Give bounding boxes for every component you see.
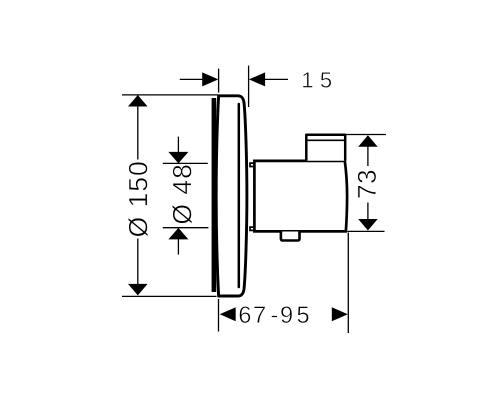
dim 73: top extension line	[346, 134, 386, 136]
dim 73: dimension line upper segment	[367, 136, 369, 166]
dim D48: top extension line	[163, 162, 208, 164]
body bottom edge extension	[253, 230, 347, 233]
plate front face line	[238, 104, 241, 287]
dim 15: label	[303, 72, 331, 87]
dim 15: left arrowhead	[202, 72, 218, 86]
cartridge stop cap on top	[306, 135, 345, 161]
dim D48: bottom extension line	[163, 227, 209, 229]
dim D150: dimension line lower segment	[137, 239, 139, 295]
dim 73: dimension line lower segment	[367, 203, 369, 230]
sleeve tab bottom	[250, 227, 254, 230]
dim 67-95: left arrowhead pointing left	[220, 307, 236, 321]
dim D48: label	[172, 165, 192, 223]
dim D48: bottom arrowhead pointing up	[168, 228, 188, 240]
dim 67-95: right extension line	[347, 233, 349, 334]
dim D150: bottom arrowhead	[128, 284, 148, 296]
dim D150: label	[128, 162, 148, 236]
cap inner line	[308, 139, 345, 141]
dim 15: right leader wire	[265, 78, 289, 80]
dim D150: bottom extension line	[122, 295, 217, 297]
dim 73: bottom extension line	[348, 230, 385, 232]
dim 73: label	[358, 171, 377, 198]
dim D150: dimension line upper segment	[137, 96, 139, 160]
dim 67-95: left extension line	[218, 299, 220, 332]
dim D150: top arrowhead	[128, 95, 148, 107]
dim D48: top arrowhead pointing down	[168, 152, 188, 164]
dim 73: top arrowhead pointing up	[358, 135, 378, 147]
check-valve tab below body	[281, 232, 300, 241]
valve body outline	[254, 161, 347, 231]
dim D48: top tail wire	[177, 137, 179, 153]
dim 15: left leader wire	[180, 78, 203, 80]
sleeve tab top	[250, 163, 254, 166]
dim 67-95: label	[240, 306, 309, 323]
dim D150: top extension line	[122, 94, 218, 96]
dim 73: bottom arrowhead pointing down	[358, 219, 378, 231]
dim D48: bottom tail wire	[177, 239, 179, 255]
dim 15: left extension line	[218, 69, 220, 93]
dim 67-95: right arrowhead pointing right	[332, 307, 348, 321]
dim 15: right arrowhead	[249, 72, 265, 86]
dim 15: right extension line	[248, 66, 250, 107]
wall plate back rim	[212, 98, 217, 292]
escutcheon plate outline	[216, 96, 247, 296]
